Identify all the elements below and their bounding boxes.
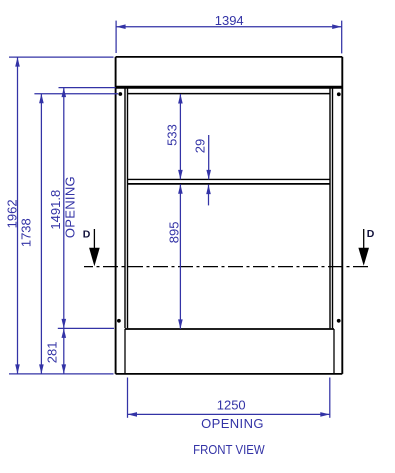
svg-text:OPENING: OPENING (63, 176, 78, 238)
svg-text:FRONT VIEW: FRONT VIEW (193, 442, 265, 457)
svg-text:281: 281 (45, 342, 60, 364)
svg-text:D: D (83, 228, 91, 240)
svg-text:1962: 1962 (4, 199, 19, 228)
svg-text:533: 533 (165, 124, 180, 146)
svg-text:1394: 1394 (215, 13, 244, 28)
svg-text:1491.8: 1491.8 (48, 190, 63, 230)
svg-text:1250: 1250 (217, 397, 246, 412)
svg-text:1738: 1738 (19, 218, 34, 247)
svg-text:29: 29 (192, 139, 207, 153)
svg-text:OPENING: OPENING (201, 416, 264, 431)
svg-text:D: D (367, 228, 375, 240)
svg-text:895: 895 (167, 222, 182, 244)
